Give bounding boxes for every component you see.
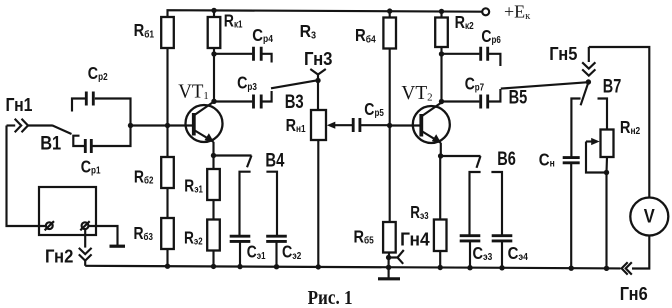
wire emitter VT2 to B6 bbox=[441, 155, 481, 157]
node collector Cр7 tap bbox=[439, 99, 444, 104]
node rail Гн4 bbox=[386, 265, 391, 270]
resistor Rэ3 bbox=[434, 220, 447, 252]
node rail Rб3 bbox=[165, 264, 170, 269]
jack Гн1 bbox=[7, 124, 16, 126]
svg-text:Гн1: Гн1 bbox=[6, 94, 33, 115]
capacitor Cн bbox=[563, 158, 580, 163]
jack Гн5 bbox=[588, 47, 590, 62]
wire Cр3 left lead bbox=[214, 100, 252, 102]
switch B4 right contact to Cэ2 bbox=[266, 172, 277, 237]
node rail Cэ2 bbox=[274, 264, 279, 269]
wire Rб1 bottom to base node bbox=[166, 48, 168, 157]
switch B1 blade bbox=[53, 126, 72, 135]
svg-text:V: V bbox=[644, 205, 655, 227]
resistor Rк2 bbox=[435, 18, 448, 48]
wire Rб5 bottom bbox=[388, 253, 391, 268]
capacitor Cр6 bbox=[481, 47, 488, 61]
wire Cр6 left lead bbox=[442, 53, 480, 55]
wire socket to ground bbox=[88, 226, 117, 245]
node top rail Rб4 bbox=[387, 8, 392, 13]
resistor Rб3 bbox=[161, 218, 174, 249]
jack Гн3 fork bbox=[310, 69, 326, 81]
svg-text:Гн4: Гн4 bbox=[400, 229, 430, 250]
bottom rail ground bus bbox=[85, 266, 620, 269]
wire wiper loop to bottom bbox=[586, 142, 607, 173]
resistor Rб2 bbox=[161, 157, 174, 188]
wire emitter VT1 down bbox=[212, 142, 214, 169]
node emitter VT2 bbox=[438, 153, 443, 158]
node rail Cэ3 bbox=[467, 265, 472, 270]
node base divider VT1 bbox=[165, 123, 170, 128]
switch B7 blade bbox=[581, 82, 589, 105]
svg-text:Гн2: Гн2 bbox=[45, 245, 73, 266]
resistor Rб4 bbox=[383, 18, 396, 49]
wire base node to VT2 bbox=[390, 124, 420, 126]
node top rail Rк2 bbox=[439, 9, 444, 14]
capacitor Cэ1 bbox=[230, 236, 251, 241]
switch B6 blade bbox=[477, 156, 481, 168]
node collector Cр3 tap bbox=[211, 99, 216, 104]
wire Rк2 top lead bbox=[440, 11, 442, 17]
socket right bbox=[82, 222, 89, 229]
resistor Rэ2 bbox=[207, 220, 220, 251]
wire Rн1 bottom to rail bbox=[317, 140, 319, 267]
wire Rб3 to rail bbox=[166, 249, 168, 266]
wire Cр2 right lead bbox=[95, 99, 131, 126]
device box bbox=[39, 187, 96, 235]
svg-text:В7: В7 bbox=[603, 77, 622, 98]
wire Rэ3 to rail bbox=[439, 251, 441, 268]
wire Rн1 top to Гн3 bbox=[317, 81, 319, 111]
resistor Rэ1 bbox=[207, 169, 220, 200]
wire Cэ4 to rail bbox=[501, 241, 503, 268]
capacitor Cр7 bbox=[481, 95, 488, 109]
wire Cр6 right contact stub B5 bbox=[489, 54, 500, 66]
node rail Cэ4 bbox=[499, 265, 504, 270]
svg-text:В6: В6 bbox=[497, 149, 516, 170]
ground bbox=[110, 245, 126, 248]
transistor VT1 bbox=[186, 102, 223, 143]
resistor Rк1 bbox=[208, 17, 221, 48]
capacitor Cэ4 bbox=[492, 236, 513, 241]
resistor Rб1 bbox=[161, 17, 174, 48]
node Гн4 tap bbox=[386, 255, 391, 260]
capacitor Cр4 bbox=[254, 47, 262, 61]
node Гн5 bbox=[586, 79, 591, 84]
wire Rн2 bottom lead bbox=[605, 157, 608, 268]
svg-text:Гн3: Гн3 bbox=[304, 48, 333, 69]
wire Cэ1 to rail bbox=[239, 241, 241, 266]
wire Rк1 top lead bbox=[213, 10, 215, 17]
transistor VT2 bbox=[413, 103, 450, 144]
switch B6 right contact to Cэ4 bbox=[491, 172, 502, 236]
wire emitter VT1 to B4 bbox=[214, 154, 252, 156]
node rail Rэ3 bbox=[438, 265, 443, 270]
svg-text:В1: В1 bbox=[40, 134, 61, 155]
capacitor Cр2 bbox=[86, 92, 93, 106]
svg-text:В3: В3 bbox=[285, 92, 304, 113]
svg-text:Рис. 1: Рис. 1 bbox=[308, 288, 353, 308]
wire Cр4 left lead bbox=[214, 53, 252, 55]
jack Гн4 fork bbox=[389, 250, 404, 264]
node rail Rн1 bbox=[316, 264, 321, 269]
node Rн2 loop bbox=[604, 170, 609, 175]
capacitor Cр3 bbox=[254, 95, 262, 109]
top rail +Ek bus bbox=[168, 10, 483, 17]
wire VT1 base lead bbox=[131, 124, 193, 126]
wire Cр1 left contact stub B1 bbox=[73, 136, 84, 146]
node collector Cр6 tap bbox=[439, 51, 444, 56]
wire Cэ2 to rail bbox=[275, 241, 277, 266]
potentiometer Rн2 bbox=[601, 130, 614, 158]
node rail Rн2 bbox=[604, 266, 609, 271]
jack Гн6 bbox=[622, 262, 632, 274]
wire collector chain VT1 bbox=[213, 48, 215, 101]
wire Cн to rail bbox=[570, 163, 572, 268]
node coupling caps join bbox=[128, 123, 133, 128]
wire Гн5 to voltmeter loop bbox=[589, 47, 650, 198]
node rail Rэ2 bbox=[211, 264, 216, 269]
wire Cр3 right contact stub B3 bbox=[263, 91, 272, 102]
capacitor Cэ2 bbox=[266, 236, 287, 241]
socket left bbox=[46, 222, 53, 229]
node top rail Rк1 bbox=[211, 8, 216, 13]
wire Cр5 to VT2 base node bbox=[361, 124, 390, 126]
voltmeter V bbox=[630, 198, 668, 236]
wire Rб4 top lead bbox=[389, 11, 391, 17]
svg-text:Гн6: Гн6 bbox=[620, 283, 648, 304]
svg-text:В4: В4 bbox=[265, 150, 284, 171]
wire Rб2 to Rб3 bbox=[166, 188, 168, 218]
switch B6 left contact to Cэ3 bbox=[470, 172, 481, 236]
jack Гн2 bbox=[84, 229, 86, 247]
wiper arrow Rн2 bbox=[586, 140, 595, 142]
ground below rail bbox=[388, 267, 390, 278]
wire Rэ2 to rail bbox=[212, 251, 214, 267]
switch B7 right contact to Rн2 bbox=[598, 99, 608, 130]
svg-text:Гн5: Гн5 bbox=[549, 43, 577, 64]
wire collector chain VT2 bbox=[440, 48, 442, 102]
wire Rэ1 to Rэ2 bbox=[212, 200, 214, 220]
wire Cэ3 to rail bbox=[469, 241, 471, 268]
wiper arrow Rн1 bbox=[331, 124, 352, 126]
switch B4 blade bbox=[247, 156, 252, 168]
resistor Rб5 bbox=[383, 222, 396, 253]
switch B4 left contact to Cэ1 bbox=[240, 172, 251, 237]
wire input left vertical bbox=[7, 126, 46, 227]
capacitor Cр1 bbox=[85, 139, 91, 153]
wire emitter VT2 down bbox=[439, 143, 442, 220]
wire Cр7 left lead bbox=[442, 100, 480, 102]
wire voltmeter bottom to Гн6 bbox=[632, 236, 649, 269]
node Гн3 bbox=[315, 78, 320, 83]
wire Rб4 down through base node to Rб5 bbox=[389, 49, 391, 223]
switch B3 blade bbox=[271, 80, 318, 88]
switch B7 left contact to Cн bbox=[571, 99, 580, 158]
wire Cр7 right contact stub B5 bbox=[489, 89, 500, 102]
svg-text:В5: В5 bbox=[509, 87, 528, 108]
wire Cр1 right lead bbox=[93, 126, 131, 147]
node rail Cн bbox=[569, 266, 574, 271]
potentiometer Rн1 bbox=[311, 110, 326, 140]
node rail Cэ1 bbox=[237, 264, 242, 269]
switch B5 blade bbox=[501, 82, 589, 88]
node collector Cр4 tap bbox=[211, 51, 216, 56]
terminal +Ek circle bbox=[482, 8, 489, 15]
wire Cр4 right contact stub B3 bbox=[263, 54, 272, 63]
capacitor Cр5 bbox=[353, 118, 360, 132]
wire Cр2 left contact stub B1 bbox=[72, 99, 85, 112]
node base VT2 bbox=[387, 123, 392, 128]
node emitter VT1 bbox=[211, 153, 216, 158]
capacitor Cэ3 bbox=[460, 236, 481, 241]
